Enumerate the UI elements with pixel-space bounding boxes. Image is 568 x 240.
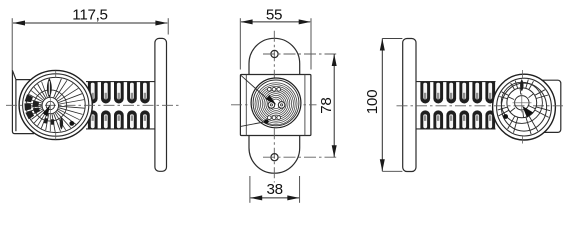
housing step lines (245, 75, 247, 136)
right mounting plate (403, 39, 416, 172)
dimension 117,5 (12, 6, 168, 70)
left head vertical centerline ticks (55, 71, 57, 78)
left head lens pattern (24, 78, 84, 132)
bottom screw hole (271, 154, 278, 161)
right view centerline (397, 105, 564, 107)
left mounting plate (155, 38, 167, 171)
dimension 38 (250, 176, 300, 203)
left arm (corrugated rubber) (86, 82, 155, 129)
square lamp housing (240, 75, 311, 136)
dimension 55 (240, 6, 311, 69)
dimension 78 (318, 54, 337, 157)
leader arrow to bulb (241, 75, 269, 100)
left view centerline (6, 104, 179, 106)
right head lens pattern (498, 79, 550, 134)
svg-text:55: 55 (266, 6, 282, 23)
svg-text:117,5: 117,5 (72, 6, 107, 23)
front lens (concentric rings) (251, 78, 301, 128)
lamp body (left head housing, tilted) (12, 70, 48, 133)
oval rubber base plate (249, 38, 300, 173)
right arm (corrugated rubber) (416, 82, 496, 129)
svg-text:38: 38 (266, 181, 282, 198)
right head vertical centerline tick (522, 70, 524, 79)
left head lens (outer rims) (19, 70, 92, 139)
leader with dot (241, 122, 267, 127)
right head housing (rect behind) (538, 80, 561, 132)
dimension 100 (364, 39, 402, 172)
top screw hole (271, 50, 278, 57)
svg-text:78: 78 (318, 97, 335, 113)
svg-text:100: 100 (364, 90, 381, 114)
right head lens (outer rims) (493, 74, 556, 140)
middle view centerlines (231, 104, 317, 106)
